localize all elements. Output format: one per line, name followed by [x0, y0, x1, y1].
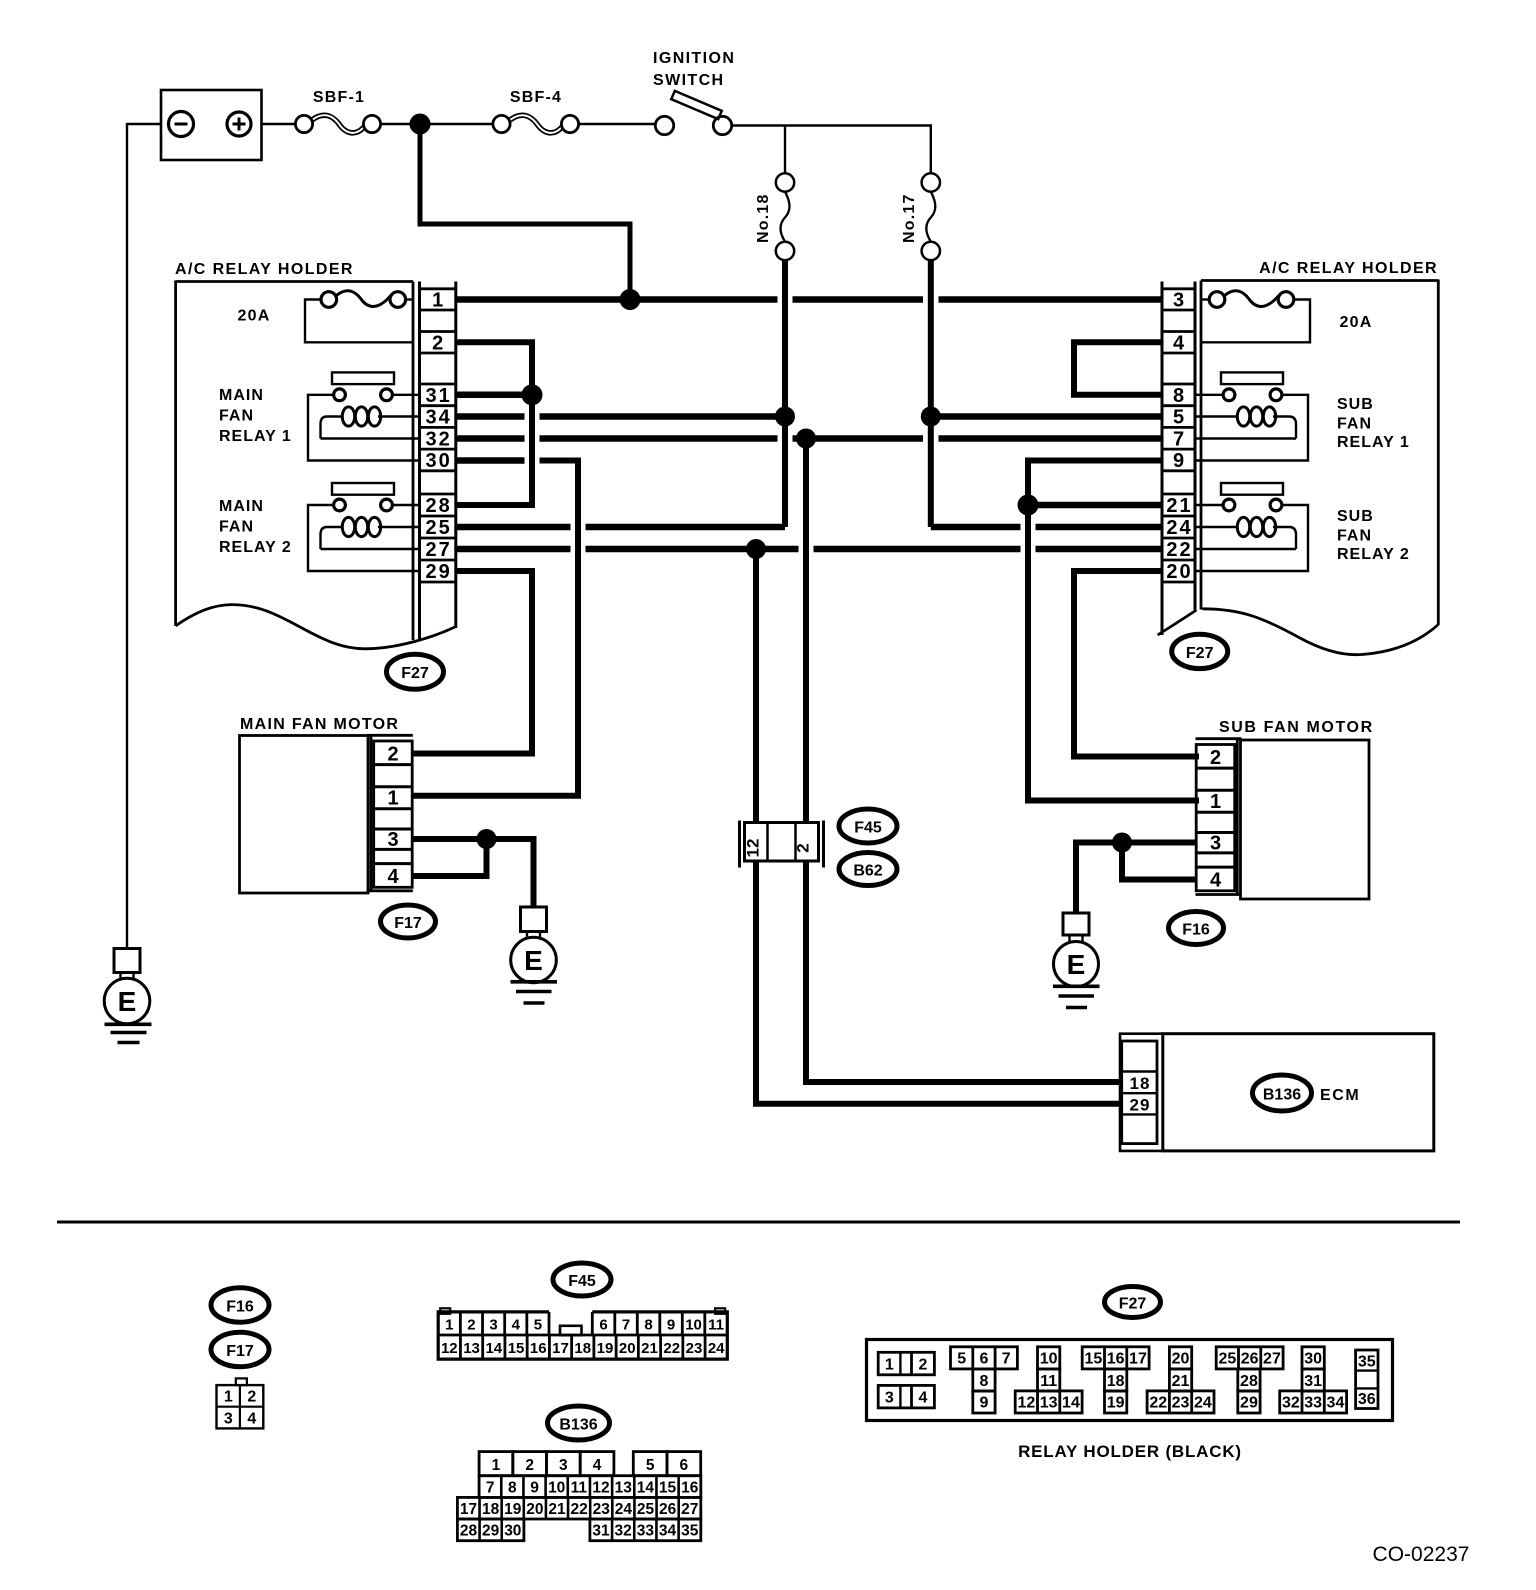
fuse 20A left — [305, 291, 414, 343]
svg-text:24: 24 — [615, 1501, 633, 1518]
svg-text:6: 6 — [680, 1457, 689, 1474]
label F27 right — [1172, 634, 1228, 668]
svg-text:25: 25 — [1218, 1351, 1236, 1368]
svg-text:32: 32 — [426, 428, 452, 450]
svg-text:28: 28 — [426, 495, 452, 517]
svg-text:RELAY 1: RELAY 1 — [1337, 434, 1410, 451]
label IGNITION SWITCH — [653, 50, 735, 89]
junction dot battery feed — [410, 114, 431, 135]
svg-text:4: 4 — [1210, 870, 1222, 892]
svg-text:22: 22 — [1149, 1395, 1167, 1412]
label 20A right — [1340, 314, 1373, 331]
label F16 — [1169, 912, 1224, 945]
svg-text:32: 32 — [615, 1523, 632, 1540]
svg-text:29: 29 — [1130, 1096, 1151, 1115]
svg-text:29: 29 — [1240, 1395, 1258, 1412]
svg-text:2: 2 — [794, 843, 813, 852]
svg-text:E: E — [524, 945, 543, 976]
wire pin 27 to pin 22 with branch to ECM 29 — [456, 546, 1162, 553]
A/C relay holder right box — [1158, 280, 1439, 655]
sub fan motor box — [1196, 739, 1370, 899]
svg-text:21: 21 — [641, 1340, 658, 1357]
svg-text:7: 7 — [1002, 1351, 1011, 1368]
svg-text:RELAY 2: RELAY 2 — [219, 539, 292, 556]
svg-text:SUB FAN MOTOR: SUB FAN MOTOR — [1219, 719, 1374, 736]
svg-text:5: 5 — [957, 1351, 966, 1368]
label F27 left — [387, 654, 444, 689]
svg-text:2: 2 — [525, 1457, 534, 1474]
svg-text:14: 14 — [1062, 1395, 1080, 1412]
svg-text:29: 29 — [426, 561, 452, 583]
svg-text:19: 19 — [597, 1340, 614, 1357]
svg-text:31: 31 — [1304, 1373, 1322, 1390]
svg-text:2: 2 — [919, 1357, 928, 1374]
connector view RELAY HOLDER BLACK — [867, 1340, 1393, 1421]
label A/C RELAY HOLDER right — [1259, 260, 1438, 277]
label F17 bottom — [211, 1332, 269, 1366]
label SBF-1 — [313, 89, 365, 106]
connector F27 left pin strip — [420, 282, 456, 642]
connector F17 pin strip — [374, 741, 413, 888]
svg-text:25: 25 — [426, 517, 452, 539]
fuse No.17 — [922, 173, 940, 260]
wire fuse No.18 down to pin 25 — [456, 260, 785, 527]
svg-text:8: 8 — [1173, 385, 1184, 407]
svg-text:31: 31 — [592, 1523, 610, 1540]
label F16 bottom — [211, 1288, 269, 1322]
label No.17 — [901, 193, 918, 243]
svg-text:FAN: FAN — [1337, 528, 1372, 545]
svg-text:3: 3 — [1173, 289, 1184, 311]
svg-text:16: 16 — [1107, 1351, 1125, 1368]
svg-text:1: 1 — [445, 1317, 453, 1334]
svg-text:F27: F27 — [1119, 1296, 1147, 1313]
svg-text:10: 10 — [548, 1479, 565, 1496]
svg-text:11: 11 — [1040, 1373, 1057, 1390]
label 20A left — [238, 308, 271, 325]
svg-text:22: 22 — [1166, 539, 1192, 561]
svg-text:12: 12 — [1017, 1395, 1035, 1412]
svg-text:No.17: No.17 — [901, 193, 918, 243]
svg-text:7: 7 — [1173, 428, 1184, 450]
svg-text:33: 33 — [1304, 1395, 1322, 1412]
svg-text:2: 2 — [432, 332, 443, 354]
svg-text:14: 14 — [637, 1479, 655, 1496]
svg-text:A/C RELAY HOLDER: A/C RELAY HOLDER — [175, 261, 354, 278]
label B136 bottom — [548, 1406, 610, 1440]
svg-text:F45: F45 — [854, 820, 882, 837]
ground E main fan — [511, 907, 558, 1003]
wire pin 21 to junction — [1028, 502, 1162, 509]
ECM box B136 — [1119, 1034, 1434, 1151]
svg-text:1: 1 — [387, 788, 398, 810]
svg-text:F16: F16 — [226, 1299, 254, 1316]
label B62 — [839, 853, 897, 886]
main fan motor box — [240, 735, 413, 893]
connector B136 pin strip — [1122, 1041, 1157, 1144]
svg-text:26: 26 — [1241, 1351, 1259, 1368]
svg-text:F45: F45 — [568, 1273, 596, 1290]
wire SBF-4 to ignition switch — [579, 123, 656, 125]
svg-text:30: 30 — [426, 450, 452, 472]
label MAIN FAN RELAY 1 — [219, 387, 292, 445]
fuse SBF-4 — [493, 115, 579, 133]
svg-text:30: 30 — [1304, 1351, 1322, 1368]
svg-text:33: 33 — [637, 1523, 655, 1540]
svg-text:21: 21 — [1172, 1373, 1190, 1390]
wire main fan pin 4 to pin 3 junction — [412, 839, 487, 876]
svg-text:29: 29 — [482, 1523, 500, 1540]
label MAIN FAN RELAY 2 — [219, 498, 292, 556]
svg-text:2: 2 — [1210, 747, 1221, 769]
svg-text:21: 21 — [548, 1501, 566, 1518]
svg-text:RELAY 2: RELAY 2 — [1337, 546, 1410, 563]
svg-text:23: 23 — [1172, 1395, 1190, 1412]
svg-text:19: 19 — [1107, 1395, 1125, 1412]
junction dot No.18 at row 34 — [775, 407, 795, 427]
svg-text:18: 18 — [1107, 1373, 1125, 1390]
svg-text:F17: F17 — [394, 915, 422, 932]
wire ECM-18 branch down to ECM pin 18 — [806, 439, 1122, 1083]
svg-text:5: 5 — [646, 1457, 655, 1474]
svg-text:13: 13 — [615, 1479, 633, 1496]
svg-text:F27: F27 — [1186, 645, 1214, 662]
svg-text:CO-02237: CO-02237 — [1373, 1543, 1470, 1566]
wire battery negative to ground E — [127, 123, 161, 949]
svg-text:27: 27 — [1263, 1351, 1281, 1368]
svg-text:3: 3 — [387, 829, 398, 851]
wire main fan pin 3 to ground — [412, 839, 534, 908]
svg-text:1: 1 — [885, 1357, 894, 1374]
wire sub fan pin 4 to pin 3 junction — [1122, 843, 1196, 880]
junction dot ECM-29 branch — [746, 539, 766, 559]
svg-text:17: 17 — [552, 1340, 569, 1357]
svg-text:8: 8 — [508, 1479, 517, 1496]
svg-text:F27: F27 — [401, 665, 429, 682]
svg-text:FAN: FAN — [1337, 416, 1372, 433]
connector F45 / B62 — [740, 821, 824, 868]
svg-text:SBF-4: SBF-4 — [510, 89, 562, 106]
wire junction to SBF-4 — [429, 123, 494, 125]
svg-text:4: 4 — [387, 866, 399, 888]
svg-text:9: 9 — [667, 1317, 675, 1334]
svg-text:18: 18 — [574, 1340, 591, 1357]
junction dot pin 1 feed — [620, 289, 641, 310]
svg-text:No.18: No.18 — [755, 193, 772, 243]
label A/C RELAY HOLDER left — [175, 261, 354, 278]
svg-text:1: 1 — [1210, 791, 1221, 813]
svg-text:32: 32 — [1282, 1395, 1300, 1412]
svg-text:20A: 20A — [1340, 314, 1373, 331]
svg-text:15: 15 — [659, 1479, 677, 1496]
svg-text:3: 3 — [489, 1317, 497, 1334]
svg-text:18: 18 — [1130, 1074, 1151, 1093]
svg-text:34: 34 — [426, 407, 452, 429]
relay SUB FAN RELAY 2 — [1195, 483, 1308, 571]
wire pin 31 to junction — [456, 392, 532, 399]
junction dot pin 21 wire — [1018, 495, 1039, 516]
svg-text:6: 6 — [599, 1317, 607, 1334]
svg-text:B136: B136 — [559, 1417, 597, 1434]
svg-text:8: 8 — [644, 1317, 652, 1334]
svg-text:28: 28 — [460, 1523, 478, 1540]
svg-text:3: 3 — [224, 1411, 233, 1428]
svg-text:7: 7 — [486, 1479, 495, 1496]
wire fuse No.17 down to pin 24 — [931, 260, 1162, 527]
label ECM — [1320, 1087, 1360, 1104]
wire battery positive to SBF-1 — [262, 123, 297, 125]
svg-text:20: 20 — [526, 1501, 543, 1518]
svg-text:20: 20 — [619, 1340, 636, 1357]
svg-text:8: 8 — [979, 1373, 988, 1390]
ground E battery — [104, 949, 151, 1043]
connector view F45 — [438, 1308, 727, 1359]
label SUB FAN RELAY 2 — [1337, 508, 1410, 563]
svg-text:RELAY 1: RELAY 1 — [219, 428, 292, 445]
label CO-02237 — [1373, 1543, 1470, 1566]
svg-text:28: 28 — [1240, 1373, 1258, 1390]
svg-text:26: 26 — [659, 1501, 677, 1518]
svg-text:9: 9 — [530, 1479, 539, 1496]
svg-text:SUB: SUB — [1337, 396, 1374, 413]
svg-text:3: 3 — [1210, 833, 1221, 855]
svg-text:19: 19 — [504, 1501, 522, 1518]
svg-text:22: 22 — [663, 1340, 680, 1357]
label MAIN FAN MOTOR — [240, 716, 399, 733]
svg-text:SUB: SUB — [1337, 508, 1374, 525]
relay MAIN FAN RELAY 1 — [308, 372, 420, 460]
junction dot No.17 at row 5 — [921, 407, 941, 427]
wire ignition switch to fuses No.18 and No.17 — [732, 124, 932, 173]
svg-text:16: 16 — [530, 1340, 547, 1357]
svg-text:FAN: FAN — [219, 408, 254, 425]
label No.18 — [755, 193, 772, 243]
label SUB FAN MOTOR — [1219, 719, 1374, 736]
svg-text:36: 36 — [1358, 1391, 1376, 1408]
connector F27 right pin strip — [1162, 282, 1195, 636]
svg-text:F16: F16 — [1182, 922, 1210, 939]
svg-text:FAN: FAN — [219, 519, 254, 536]
svg-text:23: 23 — [686, 1340, 703, 1357]
svg-text:21: 21 — [1166, 495, 1192, 517]
wire pin 29 to main fan motor pin 2 — [412, 571, 532, 754]
svg-text:E: E — [1067, 949, 1086, 980]
wire pin 34 to No.18 junction — [456, 413, 785, 420]
svg-text:6: 6 — [979, 1351, 988, 1368]
svg-text:13: 13 — [463, 1340, 480, 1357]
junction dot pin 31 wire — [522, 384, 543, 405]
svg-text:34: 34 — [1327, 1395, 1345, 1412]
wire pin 9 and pin 21 to sub fan motor pin 1 — [1028, 461, 1199, 801]
svg-text:9: 9 — [1173, 450, 1184, 472]
svg-text:4: 4 — [247, 1411, 256, 1428]
wire ECM-29 branch down to ECM pin 29 — [756, 549, 1122, 1104]
svg-text:2: 2 — [467, 1317, 475, 1334]
svg-text:SWITCH: SWITCH — [653, 72, 725, 89]
svg-text:F17: F17 — [226, 1343, 254, 1360]
svg-text:12: 12 — [441, 1340, 458, 1357]
svg-text:3: 3 — [885, 1390, 894, 1407]
fuse SBF-1 — [295, 115, 380, 133]
label SUB FAN RELAY 1 — [1337, 396, 1410, 451]
svg-text:11: 11 — [571, 1479, 588, 1496]
svg-text:17: 17 — [1129, 1351, 1147, 1368]
svg-text:16: 16 — [681, 1479, 699, 1496]
svg-text:15: 15 — [1084, 1351, 1102, 1368]
svg-text:1: 1 — [492, 1457, 501, 1474]
svg-text:20A: 20A — [238, 308, 271, 325]
svg-text:2: 2 — [387, 744, 398, 766]
A/C relay holder left box — [176, 281, 456, 649]
separator line — [57, 1221, 1460, 1224]
svg-text:10: 10 — [685, 1317, 702, 1334]
svg-text:30: 30 — [504, 1523, 521, 1540]
svg-text:A/C RELAY HOLDER: A/C RELAY HOLDER — [1259, 260, 1438, 277]
svg-text:9: 9 — [979, 1395, 988, 1412]
svg-text:3: 3 — [559, 1457, 568, 1474]
svg-text:35: 35 — [681, 1523, 699, 1540]
label F17 — [381, 905, 436, 938]
label F27 bottom — [1105, 1287, 1161, 1318]
connector view F16/F17 — [217, 1378, 264, 1428]
svg-text:27: 27 — [681, 1501, 698, 1518]
svg-text:23: 23 — [593, 1501, 611, 1518]
svg-text:SBF-1: SBF-1 — [313, 89, 365, 106]
fuse No.18 — [776, 173, 794, 260]
relay MAIN FAN RELAY 2 — [308, 483, 420, 571]
svg-text:E: E — [118, 986, 137, 1017]
ignition switch — [655, 91, 731, 135]
wire pin 5 to No.17 junction — [931, 413, 1162, 420]
ground E sub fan — [1053, 913, 1100, 1008]
wire SBF junction down to pin 1 feed — [420, 134, 630, 300]
svg-text:MAIN: MAIN — [219, 387, 264, 404]
svg-text:ECM: ECM — [1320, 1087, 1360, 1104]
svg-text:MAIN: MAIN — [219, 498, 264, 515]
svg-text:12: 12 — [744, 839, 763, 858]
svg-text:14: 14 — [485, 1340, 502, 1357]
svg-text:18: 18 — [482, 1501, 500, 1518]
svg-text:1: 1 — [224, 1389, 233, 1406]
connector F16 pin strip — [1196, 745, 1235, 892]
svg-text:15: 15 — [508, 1340, 525, 1357]
wire pin 1 to pin 3 bus — [456, 296, 1162, 303]
battery — [161, 90, 262, 160]
svg-text:34: 34 — [659, 1523, 677, 1540]
fuse 20A right — [1201, 291, 1310, 343]
label F45 — [839, 809, 897, 843]
svg-text:4: 4 — [593, 1457, 602, 1474]
svg-text:20: 20 — [1172, 1351, 1190, 1368]
junction dot ECM-18 branch — [796, 429, 816, 449]
svg-text:B136: B136 — [1263, 1087, 1301, 1104]
wire pin 20 to sub fan motor pin 2 — [1074, 571, 1199, 757]
svg-text:25: 25 — [637, 1501, 655, 1518]
wire pin 4 to pin 8 — [1074, 342, 1162, 395]
svg-text:27: 27 — [426, 539, 452, 561]
svg-text:IGNITION: IGNITION — [653, 50, 735, 67]
label SBF-4 — [510, 89, 562, 106]
wire pin 30 to main fan motor pin 1 — [412, 461, 578, 796]
svg-text:7: 7 — [622, 1317, 630, 1334]
svg-text:20: 20 — [1166, 561, 1192, 583]
svg-text:24: 24 — [708, 1340, 725, 1357]
svg-text:RELAY HOLDER (BLACK): RELAY HOLDER (BLACK) — [1018, 1442, 1242, 1461]
svg-text:1: 1 — [432, 289, 443, 311]
svg-text:31: 31 — [426, 385, 452, 407]
svg-text:4: 4 — [1173, 332, 1185, 354]
junction dot sub fan ground — [1112, 833, 1132, 853]
svg-text:5: 5 — [1173, 407, 1184, 429]
wire SBF-1 to junction — [381, 123, 411, 125]
svg-text:11: 11 — [708, 1317, 724, 1334]
svg-text:B62: B62 — [853, 863, 882, 880]
relay SUB FAN RELAY 1 — [1195, 372, 1308, 460]
svg-text:12: 12 — [592, 1479, 609, 1496]
svg-text:4: 4 — [512, 1317, 521, 1334]
svg-text:17: 17 — [460, 1501, 477, 1518]
label F45 bottom — [553, 1263, 611, 1296]
label RELAY HOLDER (BLACK) — [1018, 1442, 1242, 1461]
svg-text:MAIN FAN MOTOR: MAIN FAN MOTOR — [240, 716, 399, 733]
connector view B136 — [457, 1452, 700, 1541]
svg-text:35: 35 — [1358, 1353, 1376, 1370]
svg-text:24: 24 — [1166, 517, 1192, 539]
wire pin 32 to pin 7 with branch to ECM 18 — [456, 435, 1162, 442]
svg-text:24: 24 — [1194, 1395, 1212, 1412]
svg-text:4: 4 — [919, 1390, 928, 1407]
svg-text:5: 5 — [534, 1317, 542, 1334]
junction dot main fan ground — [477, 829, 497, 849]
wire pin 2 to pin 28 — [456, 342, 532, 505]
wire sub fan pin 3 to ground — [1076, 843, 1196, 914]
svg-text:22: 22 — [570, 1501, 587, 1518]
svg-text:10: 10 — [1040, 1351, 1058, 1368]
svg-text:13: 13 — [1040, 1395, 1058, 1412]
label B136 — [1253, 1075, 1312, 1111]
svg-text:2: 2 — [247, 1389, 256, 1406]
